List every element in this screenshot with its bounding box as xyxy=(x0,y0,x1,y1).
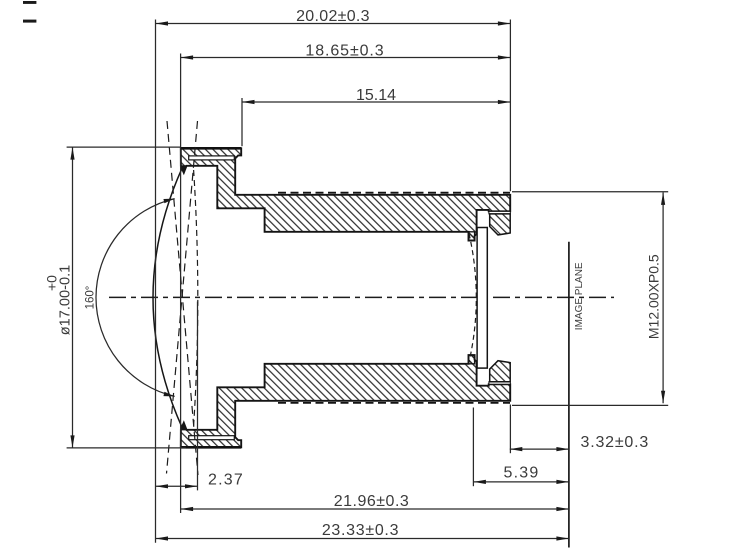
rear element surface (hidden dashed) xyxy=(469,234,476,363)
dimension 15.14 line xyxy=(242,100,510,104)
dimension 5.39 line xyxy=(473,480,569,484)
slot inner line lower xyxy=(197,437,234,439)
extension line M12 top xyxy=(512,191,668,193)
lens barrel upper half (hatched cross-section) xyxy=(181,148,510,240)
rear retainer ring lower xyxy=(490,361,511,382)
arc arrowhead bottom xyxy=(163,392,174,397)
rear glass element (IR filter) xyxy=(477,228,487,369)
dimension 2.37 line xyxy=(156,484,198,488)
FOV ray 2 (dashed) xyxy=(167,121,198,474)
dimension phi17 line (vertical) xyxy=(70,147,74,448)
svg-text:M12.00XP0.5: M12.00XP0.5 xyxy=(645,254,661,339)
dimension 3.32 line xyxy=(510,447,569,451)
extension line barrel rear top xyxy=(509,20,511,192)
rear spacer lip lower xyxy=(469,355,475,364)
rear groove lower (white slot) xyxy=(489,382,510,385)
rear spacer lip upper xyxy=(469,232,475,241)
extension line dome rear vertex xyxy=(197,302,199,491)
thread crest dashed line upper xyxy=(278,192,510,194)
flange bottom thick surface line xyxy=(181,446,241,449)
extension line barrel rear bottom xyxy=(509,405,511,454)
svg-text:2.37: 2.37 xyxy=(208,471,244,488)
160 degree angle arc xyxy=(96,199,175,397)
svg-text:+0: +0 xyxy=(44,275,60,291)
dimension 23.33 line xyxy=(156,536,569,540)
dimension M12 line (vertical) xyxy=(661,192,665,403)
FOV ray 1 (dashed) xyxy=(167,121,198,475)
svg-text:ø17.00-0.1: ø17.00-0.1 xyxy=(58,265,74,336)
thread crest dashed line lower xyxy=(278,402,510,404)
dimension 20.02 line xyxy=(156,21,511,25)
svg-text:IMAGE PLANE: IMAGE PLANE xyxy=(574,262,585,330)
extension line rear element xyxy=(472,408,474,487)
extension line front vertex xyxy=(155,20,157,543)
front retainer groove lower (white slot) xyxy=(189,436,235,440)
extension line flange rear corner xyxy=(241,98,243,146)
svg-text:23.33±0.3: 23.33±0.3 xyxy=(322,522,399,539)
arc arrowhead top xyxy=(163,199,174,204)
crimp wedge lower xyxy=(181,422,187,430)
dome rear surface (hidden dashed) xyxy=(194,170,198,426)
border mark dash 2 xyxy=(23,20,36,23)
svg-text:18.65±0.3: 18.65±0.3 xyxy=(305,42,384,59)
centerline (optical axis) xyxy=(109,296,614,298)
slot inner line upper xyxy=(197,157,234,159)
dimension 18.65 line xyxy=(181,55,511,59)
extension line flange face xyxy=(180,54,182,514)
crimp wedge upper xyxy=(181,165,187,173)
svg-text:160°: 160° xyxy=(85,286,97,310)
extension line M12 bottom xyxy=(512,404,668,406)
front retainer groove upper (white slot) xyxy=(189,156,235,160)
extension line phi17 top xyxy=(67,146,181,148)
image plane line xyxy=(568,242,570,548)
flange top thick surface line xyxy=(181,147,241,150)
svg-text:15.14: 15.14 xyxy=(356,87,396,104)
border mark dash 1 xyxy=(23,1,36,4)
svg-text:5.39: 5.39 xyxy=(504,465,540,482)
rear retainer ring upper xyxy=(490,214,511,235)
lens barrel lower half (hatched cross-section) xyxy=(181,355,510,447)
svg-text:3.32±0.3: 3.32±0.3 xyxy=(581,434,650,451)
svg-text:21.96±0.3: 21.96±0.3 xyxy=(334,493,410,510)
extension line phi17 bottom xyxy=(67,447,186,449)
rear groove upper (white slot) xyxy=(489,211,510,214)
dimension 21.96 line xyxy=(181,507,569,511)
svg-text:20.02±0.3: 20.02±0.3 xyxy=(296,8,370,25)
dome front surface (solid arc) xyxy=(153,168,182,427)
